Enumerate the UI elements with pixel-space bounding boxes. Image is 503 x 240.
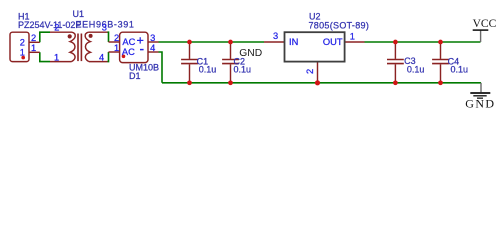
- svg-text:0.1u: 0.1u: [407, 64, 425, 74]
- svg-text:GND: GND: [239, 48, 262, 59]
- svg-text:PZ254V-11-02P: PZ254V-11-02P: [18, 20, 81, 30]
- svg-text:0.1u: 0.1u: [199, 64, 217, 74]
- svg-text:AC: AC: [122, 47, 135, 57]
- svg-text:OUT: OUT: [323, 37, 343, 47]
- svg-text:3: 3: [102, 23, 107, 33]
- svg-text:0.1u: 0.1u: [451, 65, 469, 75]
- svg-text:7805(SOT-89): 7805(SOT-89): [309, 21, 370, 31]
- svg-text:GND: GND: [465, 96, 495, 110]
- svg-text:2: 2: [114, 33, 119, 43]
- svg-text:4: 4: [99, 53, 104, 63]
- svg-text:0.1u: 0.1u: [234, 65, 252, 75]
- svg-text:2: 2: [31, 33, 36, 43]
- svg-text:AC: AC: [122, 37, 135, 47]
- svg-text:1: 1: [350, 32, 355, 42]
- svg-text:2: 2: [54, 23, 59, 33]
- svg-text:D1: D1: [129, 71, 141, 81]
- svg-text:3: 3: [273, 31, 278, 41]
- svg-text:IN: IN: [289, 37, 298, 47]
- svg-text:2: 2: [305, 69, 315, 74]
- svg-text:2: 2: [20, 38, 25, 48]
- svg-text:1: 1: [54, 53, 59, 63]
- svg-text:4: 4: [150, 43, 155, 53]
- svg-text:1: 1: [31, 43, 36, 53]
- svg-text:1: 1: [20, 48, 25, 58]
- svg-text:1: 1: [114, 43, 119, 53]
- svg-text:U1: U1: [73, 9, 85, 19]
- svg-text:VCC: VCC: [473, 18, 497, 30]
- svg-text:3: 3: [150, 33, 155, 43]
